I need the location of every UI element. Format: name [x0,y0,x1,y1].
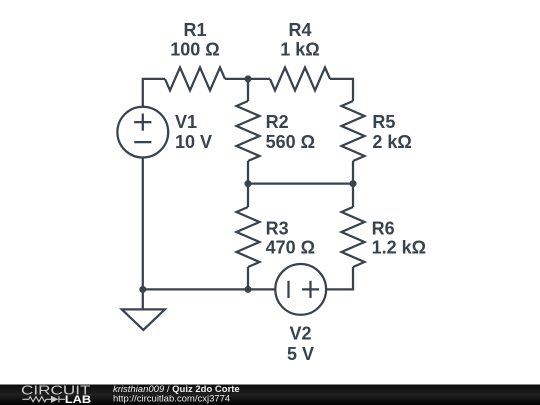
label V2 value 5 V [287,324,314,365]
svg-text:560 Ω: 560 Ω [266,132,315,152]
svg-text:R1: R1 [183,20,206,40]
label R4 value 1 kOhm [280,20,319,60]
svg-text:2 kΩ: 2 kΩ [372,132,411,152]
wire V2 minus terminal to node D [248,288,275,290]
resistor R3 [237,207,260,267]
footer credit text [113,384,240,405]
svg-text:R4: R4 [288,20,311,40]
ground [122,289,165,330]
node E junction dot [139,286,146,293]
node C junction dot [350,180,357,187]
node D junction dot [245,286,252,293]
label R2 value 560 Ohm [266,112,315,152]
wire R4 to R5 top [330,79,353,101]
voltage source V2 [275,264,326,315]
wire node B to R3 top [247,184,249,207]
label R3 value 470 Ohm [266,218,315,257]
wire bottom: node D to node E [143,288,248,290]
svg-text:R5: R5 [372,112,395,132]
wire middle: node B to node C [248,182,353,184]
svg-text:470 Ω: 470 Ω [266,238,315,258]
footer bar [0,385,540,405]
resistor R4 [270,67,330,90]
wire top-left: V1 top to R1 [143,79,165,107]
wire node A to R2 top [247,79,249,101]
svg-text:http://circuitlab.com/cxj3774: http://circuitlab.com/cxj3774 [113,393,230,404]
wire V1 bottom to node E [142,158,144,290]
label R1 value 100 Ohm [170,20,219,60]
voltage source V1 [117,107,168,158]
resistor R2 [237,101,260,161]
svg-text:R6: R6 [372,218,395,238]
label V1 value 10 V [175,112,212,152]
wire node A to R4 [248,78,270,80]
svg-text:V2: V2 [289,324,311,344]
wire node C to R6 top [352,184,354,207]
wire R2 bottom to node B [247,161,249,184]
svg-text:R3: R3 [266,218,289,238]
svg-text:5 V: 5 V [287,344,314,364]
svg-text:10 V: 10 V [175,132,212,152]
resistor R1 [165,67,225,90]
label R6 value 1.2 kOhm [372,218,426,257]
resistor R6 [342,207,365,267]
resistor R5 [342,101,365,161]
wire R5 bottom to node C [352,161,354,184]
svg-text:R2: R2 [266,112,289,132]
wire R6 bottom to V2 plus terminal [326,267,353,289]
svg-text:1 kΩ: 1 kΩ [280,40,319,60]
wire R1 to node A [225,78,248,80]
svg-text:1.2 kΩ: 1.2 kΩ [372,238,426,258]
wire R3 bottom to node D [247,267,249,289]
CircuitLab logo [21,383,91,405]
svg-text:V1: V1 [175,112,197,132]
label R5 value 2 kOhm [372,112,411,152]
node B junction dot [245,180,252,187]
svg-text:LAB: LAB [65,394,91,405]
svg-text:100 Ω: 100 Ω [170,40,219,60]
node A junction dot [245,75,252,82]
